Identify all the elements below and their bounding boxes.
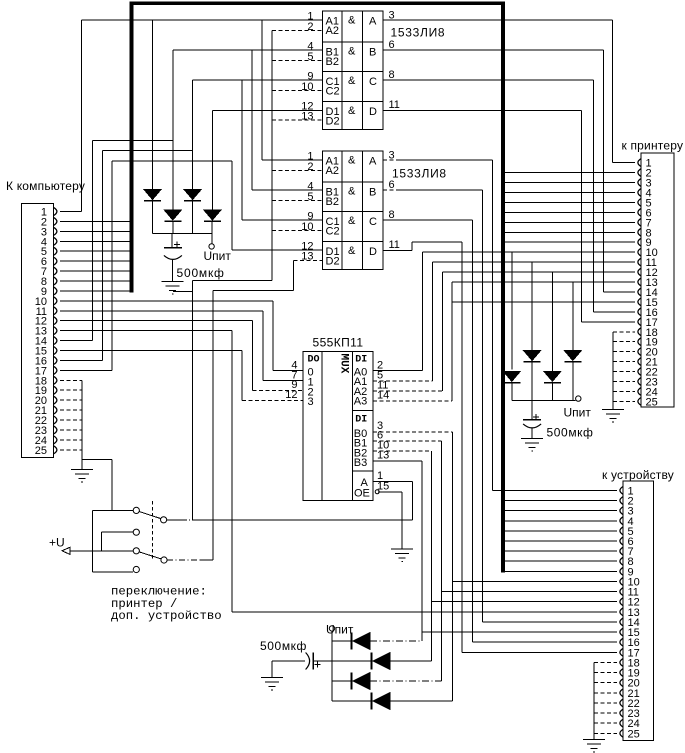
svg-text:&: & xyxy=(348,75,356,87)
svg-text:6: 6 xyxy=(389,39,395,51)
svg-text:A: A xyxy=(369,156,377,168)
svg-text:к устройству: к устройству xyxy=(602,468,674,482)
svg-text:500мкф: 500мкф xyxy=(260,639,307,653)
svg-text:B2: B2 xyxy=(326,196,339,208)
svg-text:11: 11 xyxy=(389,99,400,111)
svg-text:C2: C2 xyxy=(326,226,340,238)
svg-text:6: 6 xyxy=(389,179,395,191)
svg-text:8: 8 xyxy=(389,209,395,221)
svg-text:MUX: MUX xyxy=(338,354,350,374)
svg-text:B2: B2 xyxy=(326,56,339,68)
svg-text:25: 25 xyxy=(628,728,640,740)
svg-text:&: & xyxy=(348,185,356,197)
svg-text:DI: DI xyxy=(355,415,367,426)
svg-text:&: & xyxy=(348,105,356,117)
svg-text:555КП11: 555КП11 xyxy=(313,336,364,350)
svg-text:D: D xyxy=(369,106,377,118)
svg-text:C: C xyxy=(369,76,377,88)
svg-text:C: C xyxy=(369,216,377,228)
svg-text:D2: D2 xyxy=(326,116,340,128)
svg-text:1533ЛИ8: 1533ЛИ8 xyxy=(392,167,447,181)
svg-text:3: 3 xyxy=(308,396,314,408)
svg-text:500мкф: 500мкф xyxy=(547,426,594,440)
svg-text:&: & xyxy=(348,245,356,257)
svg-text:B3: B3 xyxy=(354,457,367,469)
svg-text:15: 15 xyxy=(377,481,389,493)
svg-text:+U: +U xyxy=(49,536,65,550)
svg-text:C2: C2 xyxy=(326,86,340,98)
svg-text:13: 13 xyxy=(301,111,313,123)
svg-text:&: & xyxy=(348,215,356,227)
svg-text:D2: D2 xyxy=(326,256,340,268)
svg-text:A2: A2 xyxy=(326,165,339,177)
svg-text:B: B xyxy=(369,46,376,58)
svg-text:A3: A3 xyxy=(354,395,367,407)
svg-text:К компьютеру: К компьютеру xyxy=(6,179,85,193)
svg-text:Uпит: Uпит xyxy=(326,623,354,637)
svg-text:OE: OE xyxy=(354,488,370,500)
svg-text:&: & xyxy=(348,45,356,57)
svg-text:10: 10 xyxy=(301,221,313,233)
svg-text:доп. устройство: доп. устройство xyxy=(111,609,222,623)
svg-text:500мкф: 500мкф xyxy=(177,266,225,280)
svg-text:B: B xyxy=(369,186,376,198)
svg-text:&: & xyxy=(348,15,356,27)
svg-text:A: A xyxy=(369,16,377,28)
svg-text:D: D xyxy=(369,246,377,258)
svg-text:&: & xyxy=(348,155,356,167)
svg-text:8: 8 xyxy=(389,69,395,81)
svg-text:25: 25 xyxy=(646,396,658,408)
svg-text:2: 2 xyxy=(307,21,313,33)
svg-text:2: 2 xyxy=(307,161,313,173)
svg-text:13: 13 xyxy=(301,251,313,263)
svg-text:A2: A2 xyxy=(326,25,339,37)
svg-text:к принтеру: к принтеру xyxy=(622,139,684,153)
svg-text:5: 5 xyxy=(307,191,313,203)
svg-text:DO: DO xyxy=(308,355,320,366)
svg-text:25: 25 xyxy=(35,445,47,457)
svg-text:DI: DI xyxy=(355,355,367,366)
svg-text:Uпит: Uпит xyxy=(564,406,592,420)
svg-text:1533ЛИ8: 1533ЛИ8 xyxy=(391,26,446,40)
svg-text:11: 11 xyxy=(389,239,400,251)
svg-text:Uпит: Uпит xyxy=(204,249,232,263)
